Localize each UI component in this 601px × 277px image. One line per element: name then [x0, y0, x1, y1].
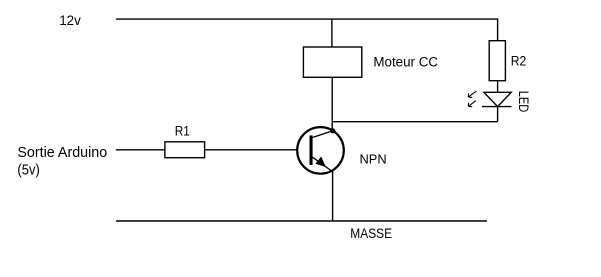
transistor emitter stroke	[313, 157, 334, 172]
svg-text:LED: LED	[516, 91, 531, 113]
wire LED return to collector node	[332, 121, 497, 123]
LED cathode bar	[482, 106, 512, 108]
resistor R2	[489, 41, 505, 81]
wire emitter to ground rail	[332, 171, 334, 221]
wire input to R1	[116, 149, 165, 151]
svg-text:NPN: NPN	[360, 151, 387, 166]
wire LED cathode drop	[497, 107, 499, 122]
LED D1 triangle	[484, 92, 511, 106]
svg-text:MASSE: MASSE	[350, 226, 392, 241]
svg-text:Sortie Arduino: Sortie Arduino	[17, 145, 107, 161]
wire motor bottom to collector node	[331, 77, 333, 131]
node collector junction dot	[330, 128, 335, 133]
wire rail drop to motor	[331, 19, 333, 47]
wire ground rail (MASSE)	[116, 220, 487, 222]
resistor R1	[165, 142, 205, 158]
motor M1 (Moteur CC)	[303, 47, 361, 77]
wire R1 to base	[205, 149, 298, 151]
LED emission arrow upper	[468, 91, 476, 97]
svg-text:R1: R1	[175, 124, 190, 139]
wire 12v rail top	[116, 18, 498, 20]
LED emission arrow lower	[468, 101, 476, 107]
transistor emitter arrowhead	[316, 157, 326, 167]
svg-text:(5v): (5v)	[17, 163, 39, 179]
svg-text:12v: 12v	[59, 13, 81, 28]
transistor collector stroke	[313, 131, 333, 138]
wire R2 to LED anode	[497, 81, 499, 93]
transistor base bar	[310, 135, 313, 165]
svg-text:Moteur CC: Moteur CC	[373, 54, 438, 69]
svg-text:R2: R2	[511, 54, 527, 69]
transistor Q1 circle	[297, 127, 344, 174]
wire rail drop to R2	[497, 18, 499, 40]
